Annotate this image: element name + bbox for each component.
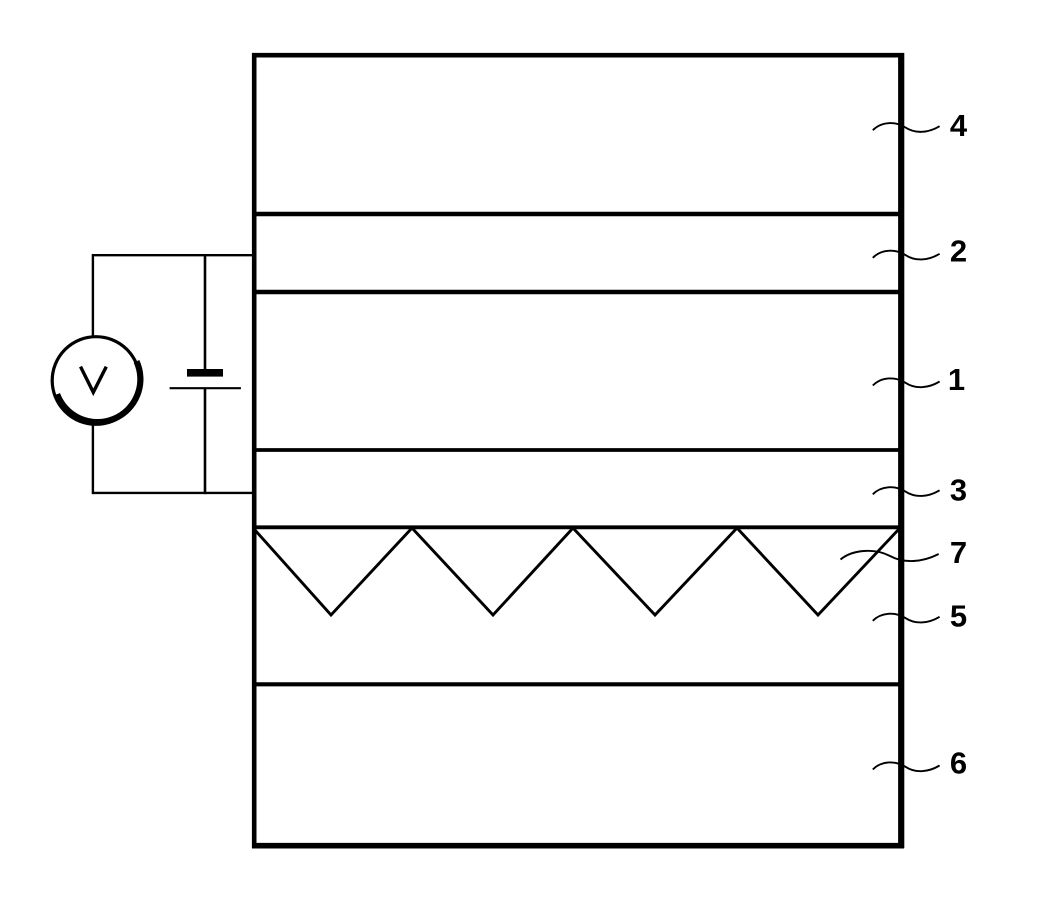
leader squiggle 2 xyxy=(873,251,940,260)
layer boundary 2/1 xyxy=(252,290,899,294)
wire: left vertical above voltmeter xyxy=(92,254,94,337)
svg-text:2: 2 xyxy=(950,234,967,269)
device outline: left edge xyxy=(252,53,257,848)
leader squiggle 3 xyxy=(873,487,940,496)
wire: bottom horizontal from circuit to layer 3 xyxy=(93,492,254,494)
layer boundary 4/2 xyxy=(252,212,899,216)
svg-text:7: 7 xyxy=(950,535,967,570)
layer boundary 3/5 xyxy=(252,525,899,529)
device outline: bottom edge xyxy=(252,843,904,849)
svg-text:1: 1 xyxy=(948,362,965,397)
svg-text:5: 5 xyxy=(950,599,967,634)
leader squiggle 5 xyxy=(873,614,940,623)
voltmeter V circle xyxy=(52,337,140,425)
voltmeter V letter xyxy=(81,368,105,392)
wire: top horizontal from circuit to layer 2 xyxy=(93,254,254,256)
device outline: top edge xyxy=(252,53,904,58)
leader squiggle 7 xyxy=(841,551,939,561)
zigzag interface 7 xyxy=(254,528,899,615)
battery thin long plate xyxy=(170,387,241,389)
leader squiggle 6 xyxy=(873,762,940,771)
layer boundary 1/3 xyxy=(252,448,899,452)
wire: left vertical below voltmeter xyxy=(92,424,94,494)
device outline: right edge xyxy=(898,53,904,848)
leader squiggle 1 xyxy=(873,378,940,387)
svg-text:6: 6 xyxy=(950,746,967,781)
svg-text:4: 4 xyxy=(950,108,968,143)
wire: battery vertical above xyxy=(204,254,207,370)
layer boundary 5/6 xyxy=(252,682,899,686)
voltmeter circle thick shadow arc xyxy=(57,361,140,422)
leader squiggle 4 xyxy=(873,123,940,132)
svg-text:3: 3 xyxy=(950,473,967,508)
wire: battery vertical below xyxy=(204,388,207,494)
battery thick short plate xyxy=(187,369,223,377)
